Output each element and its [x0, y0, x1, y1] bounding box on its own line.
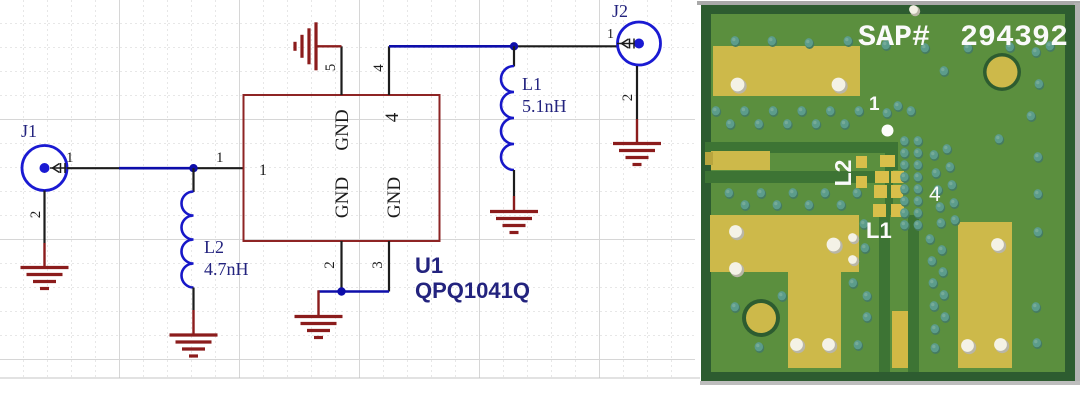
svg-text:5: 5 — [323, 64, 339, 72]
ground GND J1 — [21, 268, 69, 289]
svg-text:QPQ1041Q: QPQ1041Q — [415, 278, 530, 303]
mounting ring bottom-left — [742, 299, 780, 337]
mounting ring top-right — [983, 53, 1021, 91]
svg-text:4.7nH: 4.7nH — [204, 259, 249, 279]
wire junction to L2 — [192, 168, 194, 192]
ground stem L1 — [513, 196, 515, 212]
svg-text:1: 1 — [259, 162, 267, 179]
wire junction B to J2 — [514, 45, 617, 47]
trace band 2 — [705, 171, 904, 183]
wire net blue pins 2-3 — [319, 290, 390, 293]
svg-text:4: 4 — [382, 112, 403, 122]
ground stem J2 — [636, 119, 638, 144]
svg-text:J1: J1 — [21, 121, 37, 141]
svg-text:GND: GND — [332, 177, 353, 218]
svg-text:L2: L2 — [830, 160, 856, 187]
wire junction to U1 pin1 — [194, 167, 244, 169]
inductor L2 — [182, 192, 194, 288]
PCB layout photo — [697, 1, 1080, 385]
op-amp U1 body — [244, 95, 440, 241]
ground GND L2 — [170, 335, 218, 356]
svg-text:1: 1 — [66, 150, 74, 166]
svg-text:2: 2 — [620, 94, 636, 102]
svg-text:5.1nH: 5.1nH — [522, 96, 567, 116]
svg-text:2: 2 — [322, 261, 338, 269]
wire U1 pin5 up — [340, 46, 342, 95]
ground stem pins 2-3 — [317, 290, 319, 316]
svg-text:294392: 294392 — [960, 21, 1068, 55]
center vertical trace — [879, 215, 919, 372]
svg-text:4: 4 — [371, 64, 387, 72]
ground pin5 rotated left — [295, 22, 316, 70]
node junction B — [510, 42, 518, 50]
copper pour right — [958, 222, 1012, 368]
svg-text:3: 3 — [370, 261, 386, 269]
wire L2 to ground — [192, 288, 194, 311]
white via — [882, 125, 894, 137]
inductor L1 — [501, 66, 514, 170]
wire net blue pin4 to junction B — [389, 45, 514, 48]
ground GND L1 — [490, 212, 538, 233]
ground GND pins 2-3 — [295, 317, 343, 338]
copper strip center bottom — [892, 311, 908, 368]
plated holes — [729, 5, 1009, 354]
ground stem J1 — [43, 243, 45, 268]
wire J2 pin2 down — [636, 66, 638, 119]
wire net blue J1 to junction — [119, 167, 194, 170]
svg-text:L2: L2 — [204, 237, 224, 257]
svg-text:2: 2 — [28, 211, 44, 219]
svg-text:J2: J2 — [612, 1, 628, 21]
trace band top — [705, 142, 898, 153]
ground stem pin5 (rotated) — [316, 45, 342, 47]
svg-text:SAP#: SAP# — [858, 21, 930, 55]
connector J1 — [22, 146, 67, 191]
node junction A — [189, 164, 197, 172]
svg-text:L1: L1 — [522, 74, 542, 94]
SMD pads L2 L1 — [856, 155, 904, 217]
svg-text:4: 4 — [929, 183, 941, 206]
svg-text:1: 1 — [216, 150, 224, 166]
copper bar left — [711, 151, 770, 170]
wire U1 pin2 down — [340, 241, 342, 292]
connector J2 — [617, 22, 661, 65]
copper pour bottom-left T — [710, 215, 859, 272]
wire U1 pin3 down — [388, 241, 390, 292]
svg-text:L1: L1 — [866, 218, 892, 243]
wire L1 to ground — [513, 170, 515, 196]
node junction C — [337, 287, 345, 295]
wire J1 pin2 down — [43, 191, 45, 244]
wire junction B to L1 — [513, 46, 515, 66]
wire U1 pin4 up — [388, 46, 390, 95]
svg-text:GND: GND — [332, 109, 353, 150]
svg-text:1: 1 — [607, 27, 614, 42]
svg-text:U1: U1 — [415, 253, 443, 278]
svg-text:GND: GND — [384, 177, 405, 218]
copper pour top-left — [713, 46, 860, 96]
ground GND J2 — [613, 144, 661, 165]
wire J1 pin1 black segment — [67, 167, 119, 169]
ground stem L2 — [192, 310, 194, 335]
svg-text:1: 1 — [869, 94, 880, 115]
